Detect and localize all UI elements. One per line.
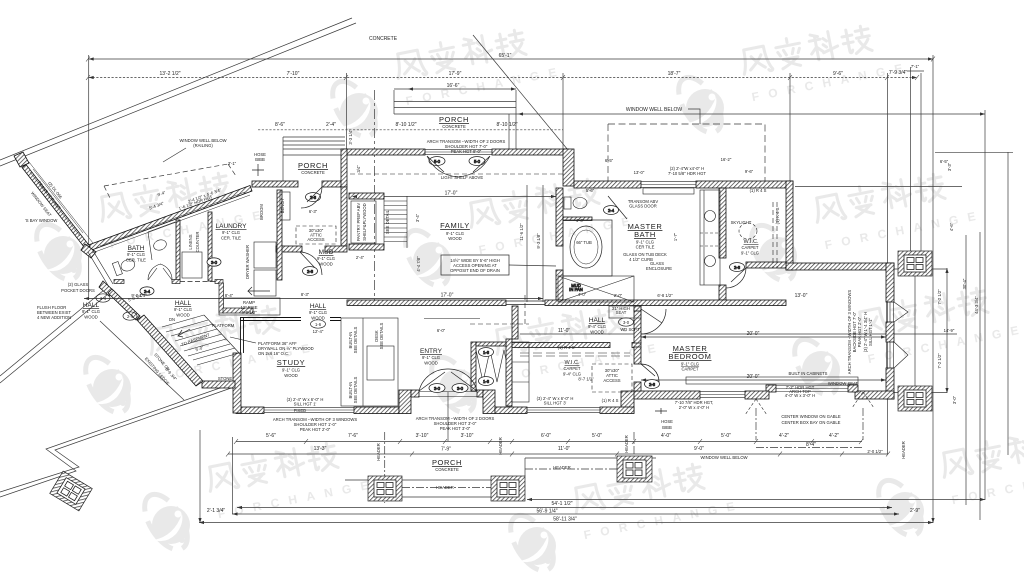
wall pocket door lower cap	[99, 281, 114, 296]
label wic2	[563, 360, 594, 382]
wall hall north a	[347, 300, 506, 306]
svg-text:2-4: 2-4	[100, 296, 107, 301]
svg-text:2'-1 3/4": 2'-1 3/4"	[207, 508, 226, 514]
label bath wing	[126, 245, 146, 263]
wall hall wing south	[223, 308, 253, 313]
svg-text:6'-0": 6'-0"	[541, 433, 551, 439]
svg-text:5'-0": 5'-0"	[721, 433, 731, 439]
wall pocket diagonal thin	[108, 289, 140, 320]
header texts	[376, 435, 906, 490]
wall masterbath north left	[574, 181, 641, 188]
note bedroom south window	[675, 400, 714, 410]
family niche note box	[441, 255, 509, 275]
bay centerline a	[755, 408, 757, 440]
vanity masterbath	[700, 190, 720, 285]
svg-text:5'-0": 5'-0"	[592, 433, 602, 439]
wall laundry west	[208, 212, 212, 281]
svg-text:'S BAY WINDOW: 'S BAY WINDOW	[25, 218, 57, 223]
dims site totals	[207, 501, 920, 523]
svg-text:9'-1" CLG: 9'-1" CLG	[309, 310, 327, 315]
svg-text:HALL: HALL	[175, 300, 192, 307]
wic2 attic label	[603, 368, 620, 383]
extension x980	[979, 232, 981, 520]
svg-text:6'-8 1/2": 6'-8 1/2"	[657, 293, 673, 298]
svg-text:3'-10": 3'-10"	[416, 433, 429, 439]
svg-text:7'-10 5/8" HDR HGT: 7'-10 5/8" HDR HGT	[668, 171, 706, 176]
svg-text:54'-1 1/2": 54'-1 1/2"	[551, 501, 572, 507]
svg-text:SEE DETAILS: SEE DETAILS	[379, 322, 384, 349]
bath toilet wing	[112, 256, 136, 275]
svg-text:HEADER: HEADER	[901, 441, 906, 458]
svg-text:(1) R 4 S: (1) R 4 S	[750, 188, 767, 193]
wall pocket door upper cap	[81, 244, 96, 258]
note box access opening	[450, 258, 500, 273]
extension x1008	[1007, 152, 1009, 455]
svg-text:BROOM: BROOM	[259, 204, 264, 220]
svg-text:2-6: 2-6	[310, 195, 317, 200]
wall south main west cap	[236, 407, 264, 414]
window lines bedroom east a	[887, 302, 894, 322]
wall entry east jamb	[483, 390, 495, 414]
svg-text:20'-0": 20'-0"	[747, 374, 760, 380]
svg-text:4'-6": 4'-6"	[949, 222, 954, 231]
svg-text:9'-6": 9'-6"	[745, 169, 754, 174]
label study	[277, 358, 305, 378]
door tag 5-0 right	[469, 157, 485, 166]
wall bath west lower	[556, 270, 563, 300]
laundry appliances	[182, 242, 276, 296]
wall south main mid	[354, 407, 399, 414]
window lines family north	[425, 150, 492, 155]
bedroom door arc	[641, 309, 666, 334]
porch centerline right	[633, 432, 635, 456]
label master bedroom	[669, 344, 712, 372]
window lines bedroom east b	[887, 342, 894, 368]
svg-text:ON 2x6 16" O.C.: ON 2x6 16" O.C.	[258, 351, 289, 356]
svg-text:8'-10 1/2": 8'-10 1/2"	[496, 122, 517, 128]
svg-text:PEAK HGT 2'-0": PEAK HGT 2'-0"	[857, 316, 862, 347]
dim line 17-0 family	[352, 196, 556, 198]
entry closet zigzag	[476, 350, 506, 382]
svg-text:SEE DETAILS: SEE DETAILS	[353, 376, 358, 403]
svg-text:5-0: 5-0	[434, 159, 441, 164]
dim line porch row dashed	[258, 129, 563, 131]
label center window gable	[781, 414, 841, 425]
svg-text:6'-3": 6'-3"	[309, 209, 318, 214]
dims bedroom	[657, 293, 807, 380]
label wic master	[741, 239, 759, 256]
wic shelf dashed	[773, 202, 777, 268]
svg-text:14'-9": 14'-9"	[944, 328, 955, 333]
label hall wing mid	[169, 300, 192, 322]
svg-text:BIBB: BIBB	[255, 157, 265, 162]
svg-text:18'-7": 18'-7"	[668, 71, 681, 77]
hall seat box	[609, 306, 641, 318]
dim 16-6 line	[394, 88, 516, 90]
svg-text:PEAK HGT 3'-0": PEAK HGT 3'-0"	[440, 426, 471, 431]
extension line x346	[346, 73, 348, 150]
svg-text:COUNTER: COUNTER	[195, 232, 200, 253]
entry door arcs	[419, 369, 477, 391]
light shelf dashed	[350, 173, 566, 175]
watermark logo row1	[324, 20, 567, 144]
svg-text:ACCESS: ACCESS	[603, 378, 620, 383]
svg-text:LIGHT SHELF ABOVE: LIGHT SHELF ABOVE	[441, 175, 483, 180]
wall stair south	[349, 244, 384, 250]
svg-text:58'-11 3/4": 58'-11 3/4"	[553, 517, 577, 523]
svg-text:7'-1": 7'-1"	[911, 64, 920, 69]
column porch c4	[617, 456, 652, 482]
svg-text:PORCH: PORCH	[298, 161, 328, 170]
svg-text:CONCRETE: CONCRETE	[369, 36, 398, 42]
label entry	[420, 348, 443, 366]
north porch2 slab	[394, 90, 516, 149]
extension x947	[946, 268, 948, 393]
svg-text:ENTRY: ENTRY	[420, 348, 443, 355]
svg-text:MUD: MUD	[319, 249, 334, 256]
svg-text:(1) R 4 S: (1) R 4 S	[558, 345, 575, 350]
note platform study	[258, 341, 314, 356]
svg-text:POCKET DOORS: POCKET DOORS	[61, 288, 95, 293]
label master bath	[628, 222, 663, 250]
label porch north right	[439, 115, 469, 129]
existing wall diagonal left	[0, 294, 108, 383]
dims porch row	[275, 122, 518, 128]
dim line 7-1	[907, 70, 924, 72]
wall family east	[786, 181, 793, 270]
window lines hall south east	[527, 408, 600, 413]
shower door	[608, 196, 627, 219]
mud closet door arc	[300, 252, 322, 275]
svg-text:30'-4": 30'-4"	[962, 278, 967, 289]
svg-text:3'-1": 3'-1"	[228, 161, 237, 166]
wall bath south b	[172, 280, 180, 284]
svg-text:3'-3 1/4": 3'-3 1/4"	[348, 129, 353, 145]
svg-text:HEADER: HEADER	[553, 465, 570, 470]
column east c6	[898, 251, 932, 276]
wic2 rod dashed	[520, 353, 630, 356]
ramp box	[219, 298, 280, 315]
svg-text:SEE DETAILS: SEE DETAILS	[353, 326, 358, 353]
label hall wing far	[82, 302, 100, 320]
dim line wing hall	[84, 298, 543, 300]
svg-text:8'-6": 8'-6"	[275, 122, 285, 128]
dim ticks top	[86, 75, 919, 80]
wall bedroom west	[634, 309, 641, 343]
wall bay end cap	[14, 152, 29, 167]
dims masterbath top	[605, 157, 949, 176]
svg-text:7'-10": 7'-10"	[287, 71, 300, 77]
svg-text:66" TUB: 66" TUB	[576, 240, 592, 245]
svg-text:7'-6": 7'-6"	[348, 433, 358, 439]
door tag 3-0 left	[429, 384, 445, 393]
svg-text:7'-2 1/2": 7'-2 1/2"	[937, 289, 942, 305]
wall family north left	[343, 149, 425, 155]
svg-text:9'-1" CLG: 9'-1" CLG	[82, 309, 100, 314]
wall hall wing east vertical	[219, 283, 224, 313]
note box leader	[509, 265, 556, 266]
wall stone horizontal	[202, 381, 235, 388]
svg-text:4'-2": 4'-2"	[829, 433, 839, 439]
svg-text:13'-0": 13'-0"	[634, 170, 645, 175]
entry soffit line	[424, 318, 480, 320]
bay window glass	[30, 169, 83, 236]
dim row south y454	[228, 453, 888, 455]
hall opening lines	[506, 301, 545, 305]
svg-text:FAMILY: FAMILY	[440, 221, 470, 230]
wall mud south b	[325, 246, 347, 252]
long site line y514	[232, 513, 899, 515]
walls	[14, 149, 894, 414]
window well dashed box right	[608, 124, 765, 181]
site line upper horizontal	[394, 113, 985, 115]
svg-text:8'-4": 8'-4"	[225, 293, 234, 298]
svg-text:WOOD: WOOD	[84, 315, 98, 320]
svg-text:SILL HGT 3': SILL HGT 3'	[544, 401, 567, 406]
stairs wing rail	[204, 315, 241, 355]
wall bay window diagonal	[22, 165, 90, 250]
svg-text:STONE: STONE	[218, 376, 233, 381]
svg-text:8'-4": 8'-4"	[806, 442, 816, 448]
stairs wing treads	[162, 315, 239, 365]
dash-dot header south-east	[756, 447, 862, 449]
svg-text:12'-4": 12'-4"	[313, 329, 324, 334]
svg-text:LAUNDRY: LAUNDRY	[216, 223, 248, 230]
wall hall north b	[545, 300, 786, 306]
extension line x910	[910, 67, 912, 251]
svg-text:(RAILING): (RAILING)	[193, 143, 213, 148]
svg-text:CER. TILE: CER. TILE	[221, 236, 241, 241]
svg-text:ENCLOSURE: ENCLOSURE	[646, 266, 672, 271]
svg-text:BATH: BATH	[634, 230, 656, 239]
svg-text:9'-1" CLG: 9'-1" CLG	[282, 368, 300, 373]
porch centerline left	[384, 432, 386, 503]
label laundry	[216, 223, 248, 241]
svg-text:3'-4": 3'-4"	[415, 213, 420, 222]
svg-text:17'-0": 17'-0"	[441, 293, 454, 299]
column east c5	[898, 386, 932, 411]
masterbath small texts	[576, 188, 672, 271]
svg-text:BUILT IN CABINETS: BUILT IN CABINETS	[789, 371, 828, 376]
wall bedroom west lower b	[634, 382, 641, 391]
svg-text:2-8: 2-8	[307, 269, 314, 274]
column porch sw rotated	[50, 471, 93, 511]
wing window well dashed	[104, 164, 236, 198]
long site line y499	[527, 499, 985, 501]
svg-text:11'-0": 11'-0"	[558, 328, 571, 334]
window seat lines	[776, 386, 848, 392]
note arch transom south mid	[416, 416, 495, 431]
diagonal leader line	[473, 35, 568, 150]
label hall2	[588, 317, 606, 335]
svg-text:ACCESS: ACCESS	[307, 237, 324, 242]
svg-text:DN: DN	[169, 317, 175, 322]
svg-text:WINDOW WELL BELOW: WINDOW WELL BELOW	[626, 107, 682, 113]
north porch1 slab steps	[283, 137, 345, 181]
wall laundry east	[277, 190, 282, 280]
svg-text:HOSE: HOSE	[661, 419, 673, 424]
watermark logo row4	[136, 433, 379, 557]
note study windows	[287, 397, 324, 413]
tub	[570, 226, 602, 268]
svg-text:PEAK HGT 9'-0": PEAK HGT 9'-0"	[451, 149, 482, 154]
label family	[440, 221, 470, 241]
svg-text:2-4: 2-4	[127, 314, 134, 319]
svg-text:SEAT: SEAT	[616, 310, 627, 315]
svg-text:HALL: HALL	[310, 303, 327, 310]
wall wing north diagonal	[87, 186, 252, 252]
long site line y507	[237, 507, 892, 509]
wic2 attic access dashed	[592, 364, 632, 392]
svg-text:CER. TILE: CER. TILE	[126, 258, 146, 263]
svg-text:FIXED: FIXED	[294, 408, 306, 413]
dim row south y441	[236, 441, 862, 443]
wall bedroom south right	[745, 391, 769, 399]
svg-text:HEADER: HEADER	[436, 485, 453, 490]
wall bedroom east mid	[886, 322, 894, 342]
svg-text:9'-1" CLG: 9'-1" CLG	[317, 256, 335, 261]
bath vanity line	[148, 222, 175, 260]
closet tag 1-6 b	[479, 377, 494, 386]
wall closet entry west	[471, 342, 476, 391]
svg-text:65'-1": 65'-1"	[499, 53, 512, 59]
header line porch right	[525, 468, 617, 470]
svg-text:2'-4": 2'-4"	[326, 122, 336, 128]
wic door arc	[726, 268, 746, 288]
dims bottom row1	[266, 433, 839, 439]
svg-text:2'-0" W x 4'-0" H: 2'-0" W x 4'-0" H	[679, 405, 709, 410]
bath sink wing	[152, 238, 168, 252]
mud attic access dashed	[296, 226, 336, 244]
wall hall2 south a	[512, 343, 610, 348]
extension x232	[232, 437, 234, 514]
svg-text:3-0: 3-0	[434, 386, 441, 391]
svg-text:1-6: 1-6	[483, 379, 490, 384]
label porch north left	[298, 161, 328, 175]
note arch transom east rotated	[847, 290, 873, 375]
svg-text:CONCRETE: CONCRETE	[301, 170, 325, 175]
svg-text:20'-0": 20'-0"	[747, 331, 760, 337]
window seat masterbath	[643, 188, 694, 194]
built-in rotated labels	[348, 322, 384, 403]
svg-text:CONCRETE: CONCRETE	[435, 467, 459, 472]
svg-text:4'-4 7/8": 4'-4 7/8"	[416, 256, 421, 272]
svg-text:2'-4": 2'-4"	[356, 255, 365, 260]
svg-text:SHELF&PLYWOOD: SHELF&PLYWOOD	[362, 203, 367, 240]
label hose bibb south	[655, 408, 673, 430]
svg-text:BEDROOM: BEDROOM	[669, 352, 712, 361]
svg-text:4'-9 1/2": 4'-9 1/2"	[241, 310, 257, 315]
dim line top dashed	[89, 77, 917, 79]
label hall main	[309, 303, 327, 334]
ramp arrow	[248, 287, 270, 295]
svg-text:9'-3 1/8": 9'-3 1/8"	[536, 233, 541, 249]
dim arrowheads	[84, 57, 985, 524]
wall entry door left	[411, 390, 419, 397]
wall sw jog	[621, 391, 634, 413]
extension line x921	[920, 73, 922, 251]
window lines bedroom south	[700, 392, 745, 398]
svg-text:9'-1" CLG: 9'-1" CLG	[127, 252, 145, 257]
label window well top	[626, 107, 682, 113]
svg-text:5-0: 5-0	[474, 159, 481, 164]
wall study north line	[240, 318, 341, 321]
wall bath east	[176, 220, 180, 281]
wall bath wic divider lower	[719, 285, 726, 300]
wing window glass	[100, 192, 245, 246]
dn arrow wing	[178, 329, 190, 337]
column tie line	[894, 269, 947, 393]
wall mud east	[341, 187, 347, 246]
svg-text:17'-9": 17'-9"	[449, 71, 462, 77]
pocket door lines	[88, 249, 113, 287]
wall entry door right	[477, 390, 483, 397]
wall wic south	[746, 262, 786, 268]
wall bath south a	[114, 280, 124, 284]
wall hall2 west	[512, 306, 518, 339]
wall bath south c	[215, 280, 223, 284]
svg-text:GLASS DOOR: GLASS DOOR	[629, 204, 657, 209]
wall nw horizontal left	[252, 181, 298, 187]
wall stone diagonal	[137, 315, 203, 386]
svg-text:11'-6 1/2": 11'-6 1/2"	[519, 223, 524, 241]
extension line x887	[887, 73, 889, 454]
svg-text:OPPOSIT END OF DRAIN: OPPOSIT END OF DRAIN	[450, 268, 500, 273]
watermark logo row2	[28, 163, 271, 287]
svg-text:56'-9 1/4": 56'-9 1/4"	[536, 509, 557, 515]
svg-text:13'-0": 13'-0"	[795, 293, 808, 299]
dim line right mid	[795, 186, 962, 188]
note arch transom top	[427, 139, 506, 154]
wall family north right	[492, 149, 569, 155]
wall ne jog	[563, 149, 574, 186]
wall porch east vertical	[341, 149, 347, 187]
svg-text:13'-2 1/2": 13'-2 1/2"	[159, 71, 180, 77]
svg-text:8'-10 1/2": 8'-10 1/2"	[395, 122, 416, 128]
svg-text:WOOD: WOOD	[424, 361, 438, 366]
door tag hall main	[311, 320, 326, 328]
wall masterbath north right	[696, 181, 793, 188]
wall study west	[233, 353, 241, 413]
door tag 2-6 porch	[306, 193, 321, 202]
dim line hall 11-0 / 14-9	[520, 333, 957, 335]
svg-text:2'-0": 2'-0"	[614, 293, 623, 298]
svg-text:WOOD: WOOD	[448, 236, 462, 241]
dims bay rotated	[30, 180, 64, 218]
tub deck	[563, 220, 612, 276]
svg-text:CARPET: CARPET	[564, 366, 581, 371]
svg-text:3/4": 3/4"	[356, 165, 361, 173]
wall bath family divider	[556, 188, 563, 246]
svg-text:6'-5": 6'-5"	[605, 158, 614, 163]
wall nw horizontal right	[322, 181, 346, 187]
svg-text:CONCRETE: CONCRETE	[442, 124, 466, 129]
svg-text:SKYLIGHT: SKYLIGHT	[731, 220, 752, 225]
svg-text:HALL: HALL	[83, 302, 100, 309]
svg-text:4'-0": 4'-0"	[576, 218, 585, 223]
svg-text:PANTRY PREP ABV: PANTRY PREP ABV	[356, 203, 361, 242]
wall toilet south	[563, 217, 592, 221]
wall bedroom west lower	[634, 347, 641, 364]
watermark logo row3	[77, 296, 320, 420]
wall south main right b	[600, 407, 634, 414]
wall closet entry north	[476, 342, 506, 346]
svg-text:2-6: 2-6	[734, 265, 741, 270]
note window seat	[785, 381, 859, 398]
svg-text:16'-2": 16'-2"	[721, 157, 732, 162]
note arch transom south left	[273, 417, 358, 432]
hall seat label	[612, 306, 630, 315]
